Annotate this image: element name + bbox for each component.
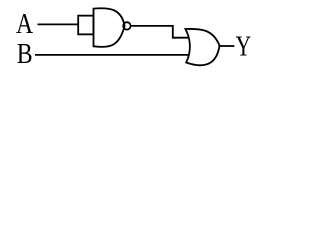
svg-text:A: A <box>16 8 33 40</box>
svg-text:Y: Y <box>236 31 251 63</box>
svg-text:B: B <box>17 38 33 69</box>
